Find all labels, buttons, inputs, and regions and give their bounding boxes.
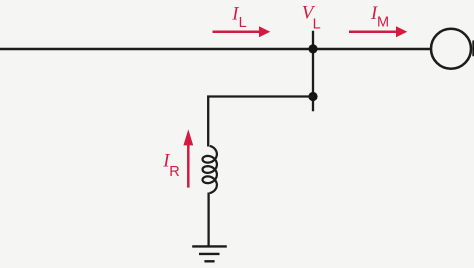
svg-text:L: L [239,15,247,31]
svg-text:R: R [169,164,179,180]
current arrow I_L [213,26,271,37]
wire: elbow from tee junction to inductor branch [208,97,313,147]
label I_R [162,151,179,179]
node junction dot on main line [308,44,317,53]
svg-text:M: M [377,14,389,30]
label I_L [231,4,246,31]
current arrow I_R [183,129,193,187]
motor shaft stub at right image edge [472,40,474,56]
motor M (circle symbol) [431,29,471,69]
ground symbol [192,246,227,261]
node junction dot at lower tee [308,92,317,101]
label I_M [370,4,389,30]
label V_L (node voltage) [302,3,321,33]
svg-text:L: L [313,16,321,32]
wire: inductor to ground [207,193,209,247]
inductor coil [203,146,217,193]
wire: main horizontal supply line [0,48,432,51]
wire: vertical branch lead through node V_L [312,31,314,111]
current arrow I_M [349,26,407,37]
